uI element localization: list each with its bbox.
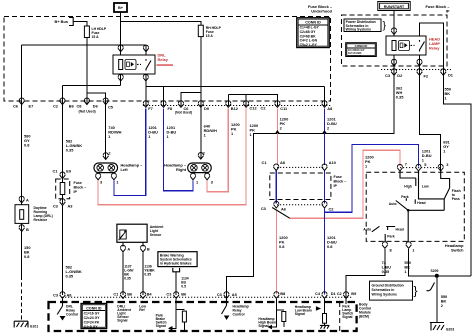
svg-text:C3: C3: [53, 292, 59, 297]
wire label 1200 PK B12: [231, 122, 240, 136]
fuse block IP dashed box (top right): [342, 15, 448, 66]
svg-text:in Hydraulic Brakes: in Hydraulic Brakes: [160, 262, 192, 266]
svg-text:C4=8 GY: C4=8 GY: [84, 325, 99, 329]
svg-text:C3: C3: [261, 206, 267, 211]
svg-text:(BCM): (BCM): [359, 315, 369, 319]
svg-text:Block –: Block –: [334, 180, 347, 184]
DRL relay coil: [119, 60, 141, 70]
wire RH fuse down to D9: [200, 37, 202, 107]
svg-text:C3: C3: [166, 292, 172, 297]
CONN ID table BCM: [81, 304, 107, 329]
svg-text:}: }: [414, 284, 418, 298]
connector C1/E9: [60, 172, 66, 179]
connector A10: [322, 164, 328, 171]
svg-text:C1: C1: [262, 160, 268, 165]
dotted connector rows center box: [277, 166, 325, 168]
svg-text:Switch: Switch: [451, 248, 464, 253]
svg-text:Right: Right: [176, 167, 187, 172]
headlamp left: [94, 163, 118, 173]
svg-text:B9: B9: [351, 291, 357, 296]
headlamp low beam signal label: [295, 305, 321, 316]
wire headlamp relay output F2 to switch pin3: [420, 55, 441, 171]
connector C3/A6: [274, 201, 280, 208]
headlamp switch internals lower: [363, 226, 408, 241]
wire 582 L-GN/BK C2/B6 down to IP fuse: [62, 105, 64, 204]
svg-text:0.8: 0.8: [327, 244, 333, 249]
svg-text:IP: IP: [74, 190, 78, 194]
connector BCM row: [60, 292, 66, 299]
wire label 1201 D-BU 2: [327, 117, 337, 131]
wire pink C11 down 1200 PK 2: [276, 109, 278, 165]
diagonal link C3/A6 to pink route: [272, 208, 290, 219]
headlamp right label: [164, 163, 187, 173]
BCM park lamp switch signal stub: [345, 299, 347, 304]
svg-text:F7: F7: [148, 106, 153, 111]
wire label 582 L-GN/BK upper: [66, 139, 82, 153]
BCM low beam signal branch: [320, 299, 329, 329]
svg-text:C6: C6: [13, 104, 19, 109]
wire B+ tap to RH fuse: [121, 21, 201, 25]
svg-text:Resistor: Resistor: [34, 218, 48, 222]
svg-text:Low: Low: [422, 185, 429, 189]
wire C6 not used stub: [181, 93, 201, 106]
svg-text:Relay: Relay: [158, 57, 169, 62]
connector C2/B6: [60, 98, 66, 105]
svg-text:Pass: Pass: [452, 197, 460, 201]
ambient light sensor label: [150, 225, 164, 237]
dotted row along BCM top: [62, 296, 352, 298]
CONN ID table fuse block IP: [346, 43, 376, 58]
svg-text:E7: E7: [29, 104, 34, 109]
wire label 1200 PK switch: [365, 155, 374, 169]
headlamp switch dashed box: [366, 172, 464, 241]
svg-text:Schematics in: Schematics in: [372, 288, 395, 292]
connector F8: [161, 101, 167, 108]
HEAD LAMP Relay label (red): [429, 37, 440, 51]
wire RUN/START to headlamp relay coil: [393, 11, 395, 37]
wire label 1137: [124, 265, 133, 281]
svg-text:Signal: Signal: [156, 324, 166, 328]
svg-text:IP: IP: [446, 9, 450, 14]
brake warning reference box: [158, 252, 197, 272]
svg-text:E9: E9: [66, 168, 72, 173]
connector rows headlamp relay bottom: [391, 59, 397, 66]
svg-text:C5: C5: [108, 105, 114, 110]
headlamp relay control label: [233, 305, 249, 317]
wire blue route to headlamp switch pin5: [325, 145, 419, 213]
svg-text:B4: B4: [147, 292, 153, 297]
splice arrow on pink at 362 crossing: [275, 130, 279, 133]
dotted harness boundary under fuse block IP: [381, 69, 451, 71]
svg-text:Sensor: Sensor: [150, 233, 162, 237]
wire blue through center box right: [324, 171, 326, 204]
dotted harness boundary under fuse block underhood: [143, 105, 331, 107]
svg-text:Block –: Block –: [74, 186, 87, 190]
BCM park brake branch: [168, 299, 186, 331]
svg-text:IP: IP: [334, 184, 338, 188]
svg-text:Auto: Auto: [363, 227, 371, 231]
svg-text:A5: A5: [232, 292, 238, 297]
wire label 1200 PK 0.8: [279, 235, 288, 249]
svg-text:C3: C3: [385, 73, 391, 78]
svg-text:B12: B12: [231, 106, 239, 111]
svg-text:Left: Left: [121, 167, 129, 172]
wire label 640 RD/WH: [204, 124, 217, 138]
wire label 691 GY: [443, 140, 450, 154]
DRL Relay label (red): [157, 53, 174, 66]
wire park lamp splice rail H2: [228, 94, 277, 106]
wire label 1134: [181, 277, 188, 289]
ground G203: [430, 323, 454, 332]
svg-text:0.5: 0.5: [181, 285, 186, 289]
svg-text:B6: B6: [127, 292, 133, 297]
center connector labels: [261, 160, 336, 211]
svg-text:15 A: 15 A: [206, 34, 214, 38]
wire blue A8 down 1201 D-BU 2: [324, 109, 326, 165]
DRL relay switch blade: [146, 59, 151, 71]
connector D9: [198, 101, 204, 108]
BCM DRL relay control switch: [57, 299, 65, 321]
svg-text:Signal: Signal: [295, 312, 305, 316]
daytime running lamp DRL resistor: [15, 205, 29, 224]
wire fork to C5: [87, 93, 106, 105]
BCM high beam signal branch: [268, 299, 286, 329]
connector B12: [226, 101, 232, 108]
wire blue through center box left: [275, 171, 277, 204]
wire blue F8 to right headlamp high beam: [164, 109, 194, 191]
wire B+ rail: [22, 44, 146, 46]
splice S209: [431, 269, 439, 278]
headlamp switch internals upper: [389, 171, 450, 234]
wire 150 BK resistor to ground: [21, 223, 23, 276]
svg-text:RUN/START: RUN/START: [384, 5, 405, 9]
wire 740 RD/WH C5 to left headlamp: [105, 105, 107, 159]
fuse block underhood label: [308, 4, 333, 14]
ground G101: [14, 321, 38, 328]
svg-text:High: High: [404, 185, 412, 189]
B+ Bus tap: [54, 18, 73, 26]
wire label 580 GY: [24, 134, 31, 148]
park lamp switch signal label: [342, 305, 353, 320]
wire label 150 BK: [24, 245, 31, 259]
wire label 550 BK D1: [445, 87, 452, 101]
wire 1136 sensor B to BCM: [142, 253, 144, 296]
fuse block IP center dashed box: [270, 173, 331, 200]
svg-text:C2=24 GY: C2=24 GY: [84, 316, 101, 320]
svg-text:(Not Used): (Not Used): [175, 111, 192, 115]
connector right headlamp pins: [198, 153, 204, 160]
svg-text:B: B: [147, 246, 150, 251]
svg-text:A6: A6: [281, 206, 287, 211]
fuse block IP label (center): [334, 175, 347, 188]
connector C1/A8 center: [273, 164, 279, 171]
svg-text:A8: A8: [280, 160, 286, 165]
svg-text:Ground Distribution: Ground Distribution: [372, 284, 404, 288]
svg-text:0.8: 0.8: [24, 143, 30, 148]
svg-text:0.35: 0.35: [66, 274, 74, 279]
wire 550 BK 2 S209 to ground: [436, 276, 438, 323]
svg-text:Park: Park: [401, 195, 408, 199]
wire label 740 RD/WH: [108, 125, 121, 139]
svg-text:0.8: 0.8: [24, 254, 30, 259]
svg-text:CONN ID: CONN ID: [305, 20, 321, 24]
wire headlamp relay coil pin down D2: [393, 55, 395, 77]
wire 74 L-BU switch pin8 to BCM: [346, 249, 385, 299]
fuse LH HDLP: [84, 26, 107, 39]
daytime running lamp resistor label: [34, 206, 53, 222]
svg-text:0.35: 0.35: [396, 95, 404, 100]
CONN ID table fuse block underhood: [297, 18, 329, 48]
splice arrow on blue at 362 crossing: [322, 130, 326, 133]
ambient light sensor: [117, 224, 147, 246]
wire label 1201 D-BU F7: [148, 125, 158, 139]
svg-text:Head: Head: [417, 201, 425, 205]
wire pink right headlamp to B12: [207, 109, 228, 192]
svg-text:Control: Control: [233, 313, 245, 317]
wire pink C12 to left headlamp: [98, 109, 246, 205]
relay row labels: [385, 73, 454, 79]
wire B+ bus to LH fuse: [73, 22, 87, 27]
connector headlamp relay coil top: [391, 28, 397, 35]
park brake switch signal label: [156, 314, 167, 329]
wire 1134 brake to BCM: [175, 272, 177, 295]
svg-text:0.8: 0.8: [279, 244, 285, 249]
wire label 1136: [144, 265, 155, 277]
svg-text:C11: C11: [280, 106, 288, 111]
wire label 1200 PK 2: [280, 117, 289, 131]
svg-text:Wiring Systems: Wiring Systems: [372, 292, 398, 296]
wire headlamp relay switch feed to D1: [420, 23, 472, 276]
svg-text:15 A: 15 A: [92, 35, 100, 39]
wire label 74 L-BU: [382, 260, 391, 274]
wire label 550 BK 2: [441, 294, 448, 308]
svg-text:C5=2 L-GY: C5=2 L-GY: [300, 43, 318, 47]
connector C6/E7: [19, 98, 25, 105]
wire 550 BK switch pin1 to S209: [409, 249, 471, 276]
svg-text:A8: A8: [327, 106, 333, 111]
svg-text:A: A: [127, 246, 130, 251]
svg-text:C1=16 GY: C1=16 GY: [84, 312, 101, 316]
svg-text:Signal: Signal: [117, 319, 127, 323]
svg-text:C2: C2: [53, 104, 59, 109]
ground distribution reference box: [370, 281, 435, 300]
svg-text:D1: D1: [448, 73, 454, 78]
wire pink C3/A6 down to BCM B8: [275, 210, 277, 295]
svg-text:Auto: Auto: [389, 202, 397, 206]
svg-text:}: }: [383, 20, 387, 32]
connector C2/C11: [275, 101, 281, 108]
svg-text:C1: C1: [53, 168, 59, 173]
connector F7: [143, 101, 149, 108]
DRL relay box: [113, 55, 155, 74]
connector C12: [243, 101, 249, 108]
connector DRL resistor A/B: [19, 196, 25, 203]
svg-text:Signal: Signal: [342, 315, 352, 319]
svg-text:A8: A8: [67, 292, 73, 297]
connector C3/A3: [60, 199, 66, 206]
connector DRL relay pins: [118, 45, 124, 52]
svg-text:D9: D9: [204, 106, 210, 111]
svg-text:Control: Control: [66, 313, 78, 317]
svg-text:0.35: 0.35: [382, 269, 390, 274]
DRL relay control label: [66, 305, 78, 317]
svg-text:C2: C2: [261, 106, 267, 111]
svg-text:Head: Head: [396, 227, 404, 231]
connector row labels 1: [13, 104, 333, 115]
B+ box: [114, 3, 127, 12]
svg-text:B: B: [26, 227, 29, 232]
wire label 1201 D-BU 0.8: [327, 235, 337, 249]
svg-text:Fuse: Fuse: [334, 175, 342, 179]
connector headlamp switch top pins: [397, 164, 403, 171]
svg-text:A10: A10: [329, 160, 336, 165]
BCM row labels: [53, 291, 357, 298]
svg-text:S209: S209: [431, 269, 439, 273]
svg-text:Ref: Ref: [139, 308, 145, 312]
fuse block underhood dashed box: [4, 17, 331, 102]
wire high beam rail H1: [146, 86, 325, 106]
wire label 1200 PK C12: [250, 123, 259, 137]
wire 582 L-GN/BK to BCM: [62, 205, 64, 295]
wire label 582 L-GN/BK lower: [66, 265, 82, 279]
svg-text:B+: B+: [118, 5, 124, 10]
wire label 550 BK switch: [404, 260, 411, 274]
wire label 1201 D-BU switch: [422, 149, 432, 163]
svg-text:C8: C8: [77, 104, 83, 109]
svg-text:C3: C3: [53, 203, 59, 208]
headlamp right: [188, 163, 212, 173]
wire rail down to C6/E7: [21, 45, 23, 105]
wire blue C2 down to BCM: [324, 209, 326, 295]
svg-text:D1 C2: D1 C2: [331, 291, 343, 296]
svg-text:A: A: [26, 198, 29, 203]
svg-text:C3: C3: [217, 292, 223, 297]
connector headlamp switch bottom pins: [382, 242, 388, 249]
svg-text:Fuse: Fuse: [74, 181, 82, 185]
svg-text:C3=48 BK: C3=48 BK: [348, 54, 362, 58]
svg-text:B6: B6: [69, 104, 75, 109]
wire 640 RD/WH D9 to right headlamp: [200, 107, 202, 159]
fuse block IP label (top right): [425, 4, 450, 14]
fuse RH HDLP: [198, 25, 221, 38]
svg-text:Underhood: Underhood: [311, 9, 332, 14]
connector C6 not used: [178, 101, 184, 108]
svg-text:B6: B6: [181, 292, 187, 297]
headlamp relay box: [386, 36, 426, 55]
wire B+ vertical to relay coil: [120, 12, 122, 55]
svg-text:C12: C12: [250, 106, 258, 111]
BCM ambient light sensor signal label: [117, 305, 131, 323]
connector C2 center: [322, 201, 328, 208]
svg-text:D2: D2: [397, 73, 403, 78]
wire 362 WH run to BCM: [227, 77, 395, 299]
wire label 1201 D-BU F8: [167, 125, 177, 139]
power distribution reference box: [344, 19, 387, 32]
flash to pass label: [452, 189, 461, 201]
wire label 362 WH: [396, 86, 404, 100]
svg-text:D6: D6: [93, 104, 99, 109]
dotted row at switch top: [400, 167, 441, 169]
svg-text:Relay: Relay: [429, 46, 440, 51]
BCM headlamp relay control switch: [222, 299, 230, 320]
wire pink route headlamp switch pin7: [290, 150, 400, 218]
svg-text:0.35: 0.35: [124, 277, 131, 281]
BCM label: [359, 303, 371, 319]
connector C5: [103, 98, 109, 105]
wire DRL switch output down: [145, 74, 147, 106]
wire DRL coil bottom to splice rail: [63, 74, 121, 105]
RUN/START box: [378, 2, 410, 11]
svg-text:(Not Used): (Not Used): [79, 110, 96, 114]
headlamp switch label: [445, 243, 464, 253]
svg-text:C2: C2: [329, 206, 335, 211]
svg-text:7: 7: [405, 161, 407, 166]
svg-text:G203: G203: [446, 328, 454, 332]
BCM dashed box: [49, 302, 357, 331]
fuse block IP label (left): [74, 181, 87, 194]
connector A8: [322, 101, 328, 108]
connector ALS pins: [120, 245, 126, 252]
wire 1137 sensor A to BCM: [122, 253, 124, 296]
svg-text:Wiring Systems: Wiring Systems: [346, 28, 372, 32]
BCM low ref label: [139, 305, 146, 313]
connector left headlamp pins: [103, 153, 109, 160]
headlamp left label: [121, 163, 144, 173]
headlamp high beam signal label: [258, 317, 276, 328]
wire 580 GY C6/E7 to DRL resistor: [21, 105, 23, 205]
headlamp relay coil: [392, 41, 415, 51]
svg-text:A3: A3: [68, 203, 74, 208]
svg-text:G101: G101: [30, 324, 38, 328]
wire blue F7 to left headlamp high beam: [114, 109, 146, 196]
connector C8/D6 not used: [84, 98, 90, 105]
svg-text:CONN ID: CONN ID: [86, 306, 102, 310]
svg-text:0.35: 0.35: [66, 148, 74, 153]
svg-text:Signal: Signal: [258, 324, 268, 328]
fuse block IP small dashed box (left): [56, 179, 70, 199]
svg-text:Park: Park: [387, 234, 394, 238]
wire LH fuse down to C8/D6: [86, 38, 88, 106]
svg-text:0.35: 0.35: [144, 273, 151, 277]
svg-text:B8: B8: [280, 291, 286, 296]
svg-text:B+ Bus: B+ Bus: [54, 19, 68, 24]
switch pin labels: [405, 161, 450, 167]
wire rail to DRL relay switch pin: [145, 45, 147, 55]
svg-text:C1: C1: [113, 292, 119, 297]
headlamp relay switch blade: [420, 40, 425, 52]
svg-text:C3=24 PK: C3=24 PK: [84, 320, 100, 324]
svg-text:C4: C4: [315, 291, 321, 296]
